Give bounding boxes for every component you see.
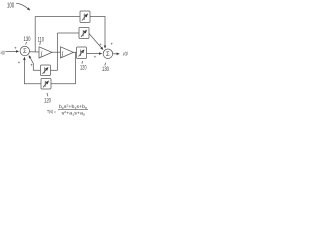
- integrator amplifier (second): [61, 47, 74, 58]
- gain block 120 a1: [41, 65, 51, 76]
- wire into gain a1: [51, 69, 58, 71]
- svg-text:s2+a1s+a0: s2+a1s+a0: [62, 110, 86, 116]
- svg-text:+: +: [14, 46, 17, 51]
- gain block 120 b1: [79, 28, 89, 39]
- node B tap down to a1: [57, 52, 59, 70]
- fraction bar: [58, 108, 88, 110]
- svg-text:100: 100: [7, 3, 14, 10]
- wire a0 back to input summer: [24, 57, 41, 84]
- svg-text:∫: ∫: [61, 50, 64, 57]
- svg-text:+: +: [94, 55, 97, 60]
- wire into gain a0: [51, 83, 76, 85]
- wire to gain b1: [58, 32, 80, 34]
- node C tap down to a0: [75, 52, 77, 84]
- svg-text:∫: ∫: [40, 50, 43, 57]
- svg-text:+: +: [18, 60, 21, 65]
- wire top run to gain b2: [35, 16, 80, 18]
- wire b0 to output summer: [87, 52, 102, 54]
- svg-text:120: 120: [44, 99, 51, 105]
- wire a1 back to input summer: [29, 56, 41, 71]
- leader tick 130: [26, 42, 27, 45]
- svg-text:+: +: [30, 63, 33, 68]
- gain block 120 b0: [77, 47, 87, 59]
- wire b1 diagonal to output summer: [89, 34, 103, 50]
- svg-text:Σ: Σ: [106, 52, 110, 58]
- output wire: [113, 53, 120, 55]
- svg-text:T(s) =: T(s) =: [47, 109, 56, 114]
- svg-text:Σ: Σ: [23, 49, 27, 55]
- leader tick 110: [39, 42, 42, 45]
- wire b2 to output summer: [90, 17, 105, 49]
- svg-text:+: +: [99, 42, 102, 47]
- wire integrator2 to gain b0: [74, 51, 77, 53]
- svg-text:+: +: [111, 41, 114, 46]
- summing junction (output sigma): [103, 49, 113, 59]
- svg-text:x(t): x(t): [0, 50, 5, 55]
- gain block 120 a0: [41, 79, 51, 90]
- leader tick 120 b0: [81, 61, 84, 64]
- leader tick 130 output: [104, 63, 107, 66]
- svg-text:110: 110: [38, 37, 45, 43]
- svg-text:120: 120: [80, 66, 87, 72]
- pointer arrow from 100: [16, 3, 30, 10]
- svg-text:y(t): y(t): [122, 51, 128, 56]
- integrator amplifier 110 (first): [39, 47, 52, 58]
- leader tick 120 a0: [47, 93, 48, 96]
- wire integrator1 to integrator2: [52, 51, 61, 53]
- wire summer to integrator 1: [30, 51, 40, 53]
- input wire: [6, 50, 19, 52]
- svg-text:b2s2+b1s+b0: b2s2+b1s+b0: [59, 103, 87, 109]
- gain block 120 b2 (top): [80, 11, 90, 23]
- summing junction U1 (input sigma): [20, 46, 29, 55]
- svg-text:130: 130: [24, 37, 31, 43]
- node A tap to b2: [34, 17, 36, 52]
- node B tap up to b1: [57, 33, 59, 52]
- svg-text:130: 130: [102, 67, 109, 73]
